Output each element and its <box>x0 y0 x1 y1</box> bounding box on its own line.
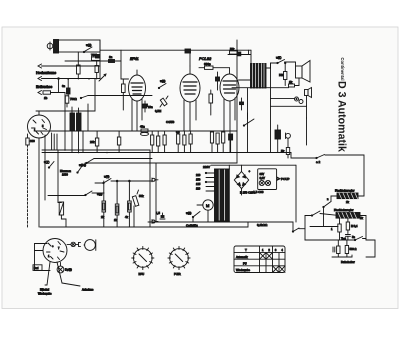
wire to speaker <box>285 62 296 66</box>
svg-text:1b: 1b <box>44 96 48 100</box>
capacitor 5n <box>216 72 220 90</box>
pilot lamp X <box>57 263 72 273</box>
resistor 700 <box>65 96 76 107</box>
mid capacitor 40n <box>140 125 149 136</box>
wire socket top rail <box>36 110 95 112</box>
svg-text:Cu/30Eu: Cu/30Eu <box>186 224 198 228</box>
wire to V1 grid <box>121 61 129 79</box>
svg-text:0,3kΩΩ: 0,3kΩΩ <box>257 223 268 227</box>
wire bus G1 <box>42 149 150 151</box>
wire bus lower1 <box>148 221 293 223</box>
capacitor 1n <box>103 50 121 62</box>
svg-text:50k: 50k <box>230 47 235 51</box>
wire grid rail <box>65 60 103 62</box>
ferrite antenna L1 <box>47 40 100 54</box>
mid capacitor dark <box>142 105 147 109</box>
svg-text:125: 125 <box>196 182 201 186</box>
svg-text:PU/R: PU/R <box>174 272 181 276</box>
switch u1 speaker <box>276 56 285 64</box>
wire bus lower2 <box>40 222 248 227</box>
wire bottom cluster close <box>332 240 375 257</box>
resistor bottom cluster1 <box>333 240 340 257</box>
wire bus to switch u11 <box>292 222 305 232</box>
svg-text:20k: 20k <box>90 140 95 144</box>
svg-text:u(9): u(9) <box>160 79 165 83</box>
motor pulley circle <box>84 240 96 251</box>
svg-text:A,B C00: A,B C00 <box>253 190 264 194</box>
earphone transducer <box>305 88 312 107</box>
svg-text:30V: 30V <box>260 172 265 176</box>
svg-text:1n: 1n <box>109 55 113 59</box>
wire switch row 159 <box>86 159 152 164</box>
svg-text:PU: PU <box>243 261 247 265</box>
resistor 600p top <box>199 62 230 69</box>
wire V2 pins <box>184 100 196 131</box>
switch u7 <box>44 160 54 168</box>
wire right rail 296 <box>295 165 297 222</box>
svg-text:700Ω: 700Ω <box>70 97 77 101</box>
svg-text:Continental: Continental <box>340 58 345 81</box>
wire antenna to mixer <box>99 40 101 79</box>
trimmer capacitor <box>95 61 98 79</box>
resistor row mid3 <box>210 132 224 153</box>
svg-text:C4/5/8: C4/5/8 <box>166 120 175 124</box>
resistor V2 anode <box>209 90 213 115</box>
tube socket U1 tuner <box>28 115 51 138</box>
svg-text:150: 150 <box>196 178 201 182</box>
switch u10 <box>77 163 86 173</box>
resistor 50k <box>230 47 252 54</box>
tube V3 PCL82 <box>220 68 239 101</box>
switch u2 input <box>83 43 92 53</box>
switch u6 mid <box>243 113 254 126</box>
wire V3 pins <box>224 98 235 153</box>
capacitor 2n blob <box>96 55 101 59</box>
resistor 500 bottom cluster2 <box>345 240 356 257</box>
wire pickup drop <box>64 93 66 112</box>
potentiometer bar P2 <box>334 208 366 220</box>
wire left vertical 58 <box>57 150 59 202</box>
wire ground drop <box>58 79 60 93</box>
svg-text:EF41: EF41 <box>130 57 139 61</box>
motor M <box>197 200 213 222</box>
wire right cluster frame <box>305 207 366 240</box>
svg-text:Erdbuchse: Erdbuchse <box>36 85 52 89</box>
wire left column drop <box>65 79 95 150</box>
switch P2 left <box>305 211 336 216</box>
resistor socket left <box>33 265 42 271</box>
resistor 100k cluster <box>331 218 341 240</box>
svg-text:6,3: 6,3 <box>176 130 180 134</box>
svg-text:PCL82: PCL82 <box>199 56 212 61</box>
resistor 118 <box>117 131 120 153</box>
svg-text:Tast: Tast <box>341 237 346 241</box>
svg-text:BFU: BFU <box>139 272 145 276</box>
jack J2 <box>271 100 307 119</box>
resistor 5k vertical <box>279 62 287 85</box>
jack J1 <box>271 97 299 101</box>
svg-text:u(10): u(10) <box>79 163 86 167</box>
resistor row mid2 <box>176 130 192 153</box>
ground jack <box>36 77 100 90</box>
rheostat RL1 <box>58 196 66 227</box>
transformer taps <box>196 165 215 191</box>
svg-text:600p: 600p <box>204 62 211 66</box>
svg-text:M 0,4: M 0,4 <box>351 224 358 228</box>
svg-text:u(4): u(4) <box>104 175 109 179</box>
svg-text:1,5: 1,5 <box>156 211 160 215</box>
wire OT secondary to speaker switch <box>266 63 277 68</box>
wire row 181 <box>111 180 152 182</box>
pickup jack with series resistor <box>38 91 65 101</box>
svg-text:Flachbahnregler: Flachbahnregler <box>335 189 355 193</box>
wire bus heater <box>85 162 237 164</box>
svg-text:220V: 220V <box>203 165 210 169</box>
wire bus chassis <box>42 152 291 154</box>
connector POUP <box>277 177 290 181</box>
terminal T1 <box>152 178 158 182</box>
capacitor 100p <box>143 101 153 112</box>
svg-text:POUP: POUP <box>281 177 290 181</box>
wire socket frame <box>35 244 51 271</box>
function table <box>234 246 285 273</box>
svg-text:10n: 10n <box>148 105 153 109</box>
rotary wafer S2 <box>168 246 190 276</box>
antenna jack A1 <box>36 64 100 75</box>
label Motorantrieb <box>38 289 52 296</box>
svg-text:a 2: a 2 <box>316 160 321 164</box>
capacitor cluster <box>345 235 355 241</box>
svg-text:Rijbahn!: Rijbahn! <box>40 289 49 292</box>
svg-text:500 Ω: 500 Ω <box>350 247 357 251</box>
svg-text:Flachbahnregler: Flachbahnregler <box>334 208 354 212</box>
svg-text:6,3V: 6,3V <box>260 176 266 180</box>
svg-text:T: T <box>245 248 247 252</box>
svg-text:Dy(p): Dy(p) <box>65 268 72 272</box>
wire secondary top <box>229 165 296 169</box>
svg-text:1000: 1000 <box>62 172 68 176</box>
resistor M04 cluster <box>346 218 358 233</box>
tube V2 ECH81 <box>180 66 200 102</box>
electrolytic cap output <box>275 125 281 153</box>
resistor V1 screen <box>122 79 126 110</box>
switch u4 <box>95 175 111 184</box>
svg-text:1k: 1k <box>289 80 293 84</box>
svg-text:Hochantenne: Hochantenne <box>36 71 56 75</box>
wire mains rail <box>211 164 229 166</box>
power transformer Tr1 <box>215 169 230 221</box>
svg-text:0,5M: 0,5M <box>155 109 162 113</box>
jack chain small lamp <box>67 242 75 246</box>
dial lamps box <box>258 169 277 190</box>
svg-text:D 3 Automatik: D 3 Automatik <box>336 81 348 152</box>
resistor 20k label <box>90 131 99 153</box>
tube socket U2 bottom <box>43 239 67 263</box>
terminal T2 <box>152 220 158 224</box>
potentiometer bar P1 <box>331 189 364 205</box>
wire B+ vertical rails <box>237 40 271 163</box>
svg-text:Berl: Berl <box>34 267 39 270</box>
jack C phono <box>286 133 291 139</box>
speaker LS <box>296 61 311 83</box>
svg-text:Klemmen: Klemmen <box>60 169 72 173</box>
svg-text:50k: 50k <box>139 194 144 198</box>
switch a2 <box>316 155 325 165</box>
resistor RL5 diagonal <box>132 190 144 227</box>
wire top small rail <box>189 53 191 66</box>
switch Tast <box>341 237 366 241</box>
svg-text:Wiedergabe: Wiedergabe <box>38 293 52 296</box>
resistor RL4 <box>125 180 131 227</box>
tube V1 EF41 <box>129 57 146 101</box>
capacitor blob 237 <box>228 50 251 56</box>
resistor 750k <box>91 53 100 60</box>
svg-text:40n: 40n <box>140 125 145 129</box>
svg-text:110: 110 <box>196 187 201 191</box>
node junction row <box>64 149 108 153</box>
switch u8 <box>48 191 104 196</box>
oscillator coil L2 <box>70 107 83 153</box>
label Klemmen <box>60 169 72 176</box>
resistor RL2 <box>101 181 106 227</box>
svg-text:u(2): u(2) <box>86 43 91 47</box>
wire bottom cluster rail <box>305 239 355 241</box>
svg-text:+: + <box>249 169 251 173</box>
resistor 1k horizontal <box>289 80 300 87</box>
trimmer arrow <box>99 74 106 81</box>
wire dashed mechanical link <box>27 145 29 227</box>
output transformer Tr2 <box>251 64 267 89</box>
svg-text:M: M <box>206 203 209 208</box>
svg-text:u(7): u(7) <box>44 160 49 164</box>
svg-text:Wiedergabe: Wiedergabe <box>236 268 251 272</box>
switch u5 motor <box>186 211 200 222</box>
svg-text:3n: 3n <box>62 84 66 88</box>
jack chain bracket <box>75 242 80 246</box>
switch u9 <box>158 79 166 89</box>
wire socket top <box>39 111 65 115</box>
svg-text:Ruhehalter: Ruhehalter <box>341 260 355 264</box>
node ground rail dots <box>67 78 89 80</box>
wire output feedback rail <box>232 78 299 88</box>
resistor RL3 <box>114 180 119 227</box>
capacitor 3n <box>62 79 70 96</box>
svg-text:KG: KG <box>279 73 284 77</box>
resistor 300 <box>26 134 35 145</box>
switch pickup <box>80 96 88 99</box>
svg-text:300: 300 <box>30 139 35 143</box>
svg-text:u(5): u(5) <box>186 211 191 215</box>
svg-text:220: 220 <box>196 173 201 177</box>
capacitor motor <box>156 211 165 219</box>
wire V3 anode to OT <box>239 79 251 81</box>
resistor 0.5M diagonal <box>155 96 168 113</box>
wire y95 run <box>88 95 152 97</box>
bridge rectifier B250 <box>234 165 250 195</box>
rotary wafer S1 <box>132 246 154 276</box>
wire OT top to B+ <box>250 50 252 63</box>
wire V1 pins <box>132 99 142 131</box>
switch P1 left <box>323 196 331 208</box>
svg-text:u(1): u(1) <box>276 56 281 60</box>
resistor input grid <box>77 52 81 79</box>
wire top rail <box>100 49 238 51</box>
wire socket pins down <box>39 133 57 227</box>
capacitor mid4 <box>229 134 233 153</box>
svg-text:Automatik: Automatik <box>236 255 248 259</box>
svg-text:Aufnahme: Aufnahme <box>82 289 94 292</box>
wire socket lower links <box>45 262 80 286</box>
resistor 5k right <box>281 138 290 158</box>
capacitor grid blob <box>185 49 191 53</box>
wire a2 run <box>291 153 364 197</box>
capacitor 1u mid <box>240 98 244 110</box>
wire mid drop 150 <box>150 150 156 227</box>
wire bus AVC <box>36 130 237 132</box>
resistor row mid1 <box>151 131 167 153</box>
wire vertical from jacks to a2 <box>306 118 308 145</box>
